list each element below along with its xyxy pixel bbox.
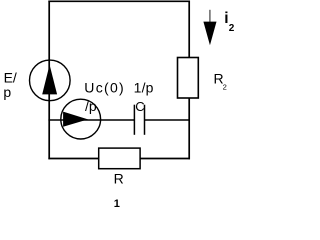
- wire bottom left (left node to R): [48, 158, 99, 160]
- resistor R (bottom branch): [99, 148, 140, 169]
- wire right lower (R2 to bottom): [188, 98, 190, 160]
- svg-text:E/: E/: [4, 70, 17, 86]
- svg-text:1: 1: [114, 198, 120, 209]
- voltage source E/p (circle with upward arrow): [30, 60, 71, 101]
- wire middle right (capacitor C to right node): [145, 119, 191, 121]
- svg-text:/p: /p: [85, 98, 97, 114]
- svg-text:2: 2: [223, 83, 227, 92]
- wire left (through source branch): [48, 1, 50, 160]
- capacitor C (plates): [134, 105, 144, 135]
- label R2: [214, 71, 227, 92]
- wire middle left (left node to capacitor C): [48, 119, 134, 121]
- label 1/p C: [134, 80, 154, 115]
- current source Uc(0)/p (circle with right arrow): [61, 99, 101, 139]
- resistor R2 (right branch): [178, 58, 199, 99]
- svg-text:2: 2: [229, 23, 235, 34]
- svg-text:Uc(0): Uc(0): [84, 79, 125, 95]
- wire bottom right (R to right node): [139, 158, 190, 160]
- svg-text:p: p: [3, 84, 11, 100]
- label i2: [224, 10, 235, 34]
- label Uc(0)/p: [84, 79, 125, 114]
- wire top (node 1 to node 2): [48, 0, 190, 2]
- wire right upper (top to R2): [188, 1, 190, 59]
- svg-text:1/p: 1/p: [134, 80, 154, 96]
- current arrow i2 (down): [203, 10, 216, 45]
- label E/p: [3, 70, 17, 101]
- svg-text:C: C: [135, 99, 144, 114]
- svg-text:R: R: [114, 170, 124, 186]
